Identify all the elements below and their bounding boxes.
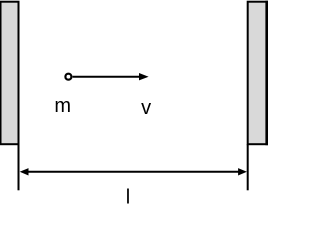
dimension arrow right head — [238, 168, 247, 175]
velocity arrow head — [139, 73, 149, 80]
svg-text:m: m — [54, 95, 71, 117]
dimension arrow shaft — [25, 171, 241, 173]
velocity arrow shaft — [73, 76, 140, 78]
right wall thick right border — [265, 1, 268, 146]
right wall — [248, 2, 268, 145]
dimension arrow left head — [20, 168, 29, 175]
right wall inner-edge extension line — [247, 144, 249, 190]
left wall — [1, 2, 19, 145]
left wall inner-edge extension line — [18, 144, 20, 190]
svg-text:v: v — [141, 97, 151, 119]
svg-text:l: l — [126, 187, 130, 209]
mass point circle m — [65, 74, 71, 80]
